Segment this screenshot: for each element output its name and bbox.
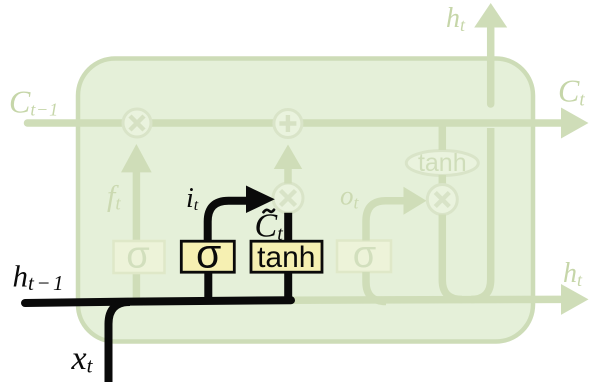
node: multiply circle 1 (forget gate x) <box>123 109 151 137</box>
wire: black vertical below sigma box 2 <box>204 272 212 301</box>
wire: o_t path from sigma box 3 curving right with arrowhead into multiply circle 3 (faded) <box>366 187 427 241</box>
wire: arrow from multiply circle 2 up into add circle (faded) <box>274 145 302 184</box>
arrowhead C_t right <box>561 108 589 139</box>
wire: C line down to tanh ellipse (faded) <box>439 123 447 150</box>
node: multiply circle 3 (output x, faded) <box>427 185 457 215</box>
svg-text:Ct: Ct <box>558 73 585 111</box>
sigma box 3 (output gate, faded) <box>337 234 391 276</box>
svg-text:ht−1: ht−1 <box>13 259 67 296</box>
wire: x_t black line joining h-line <box>109 302 131 382</box>
node: multiply circle 2 (i x C~, faded) <box>273 183 303 213</box>
svg-text:ht: ht <box>446 3 466 35</box>
svg-text:tanh: tanh <box>418 149 467 177</box>
label C~_t (black) <box>255 208 284 246</box>
svg-text:σ: σ <box>126 235 149 277</box>
sigma box 2 (input gate, highlighted yellow) <box>181 231 234 277</box>
cell body rounded rectangle <box>78 59 533 342</box>
wire: black vertical below tanh box to h-line end <box>284 272 292 300</box>
svg-text:xt: xt <box>71 340 94 378</box>
wire: sigma box 3 bottom connector to h-line (faded) <box>366 272 386 302</box>
tanh box (candidate layer, highlighted yellow) <box>251 241 322 274</box>
svg-text:ht: ht <box>563 258 583 290</box>
wire: cell-state line C (faded) <box>28 119 562 127</box>
arrowhead h_t right <box>561 284 589 315</box>
tanh ellipse (faded) <box>406 149 478 177</box>
svg-text:Ct−1: Ct−1 <box>9 83 59 119</box>
wire: tanh ellipse to multiply circle 3 (faded) <box>439 175 447 185</box>
wire: black i_t line from sigma box 2 up, curving right, arrowhead into multiply circle 2 <box>208 186 275 242</box>
node: add circle (+) on cell line <box>274 110 302 138</box>
wire: f_t arrow up into multiply circle 1 (faded) <box>121 144 152 298</box>
svg-text:tanh: tanh <box>257 241 315 274</box>
wire: multiply circle 3 down and right to h-line (faded) <box>442 215 462 300</box>
wire: faded h-line continuing right to exit <box>291 296 561 304</box>
sigma box 1 (forget gate, faded) <box>114 235 165 277</box>
svg-text:σ: σ <box>196 231 221 277</box>
wire: black vertical from multiply circle 2 down to tanh box <box>284 213 292 242</box>
wire: h_{t-1} black line <box>25 300 291 303</box>
wire: h branch up through cell to top (faded, with crossing gap at C line) <box>471 3 507 300</box>
